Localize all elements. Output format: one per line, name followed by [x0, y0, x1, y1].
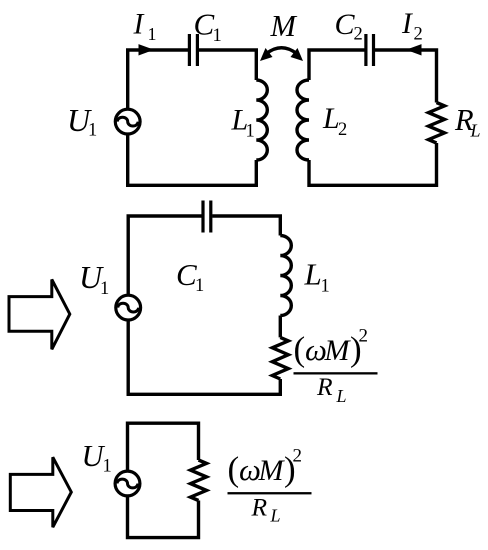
svg-text:R: R	[251, 493, 268, 522]
svg-text:2: 2	[414, 25, 423, 45]
svg-text:L: L	[270, 506, 281, 526]
svg-text:1: 1	[103, 457, 112, 477]
svg-text:I: I	[401, 8, 413, 40]
svg-text:C: C	[335, 8, 356, 41]
svg-text:M: M	[324, 334, 352, 367]
svg-text:I: I	[133, 9, 145, 41]
svg-text:2: 2	[359, 326, 369, 347]
svg-text:(: (	[228, 449, 240, 488]
svg-text:R: R	[316, 372, 333, 401]
svg-text:C: C	[176, 257, 197, 292]
svg-text:(: (	[294, 330, 306, 369]
svg-text:2: 2	[354, 25, 363, 45]
svg-text:1: 1	[100, 279, 109, 299]
svg-text:1: 1	[246, 122, 255, 142]
svg-text:2: 2	[293, 445, 303, 466]
svg-text:1: 1	[195, 276, 204, 296]
svg-text:1: 1	[321, 277, 330, 297]
svg-text:L: L	[336, 386, 347, 406]
svg-text:2: 2	[338, 120, 347, 140]
svg-text:M: M	[270, 9, 298, 43]
svg-text:M: M	[258, 454, 286, 487]
svg-text:1: 1	[148, 24, 157, 44]
svg-text:L: L	[304, 257, 322, 292]
svg-text:L: L	[470, 121, 481, 141]
svg-text:1: 1	[88, 121, 97, 141]
svg-text:1: 1	[213, 26, 222, 46]
svg-text:C: C	[194, 7, 215, 42]
